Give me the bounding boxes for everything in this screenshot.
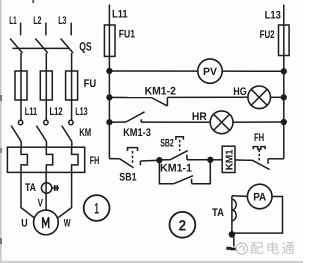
wire TA to PA [232, 195, 248, 198]
fuse FU phase 1 [15, 71, 27, 100]
thermal relay FH element 2 [46, 147, 52, 172]
wire PA loop right [232, 197, 283, 234]
switch QS linkage bar [12, 47, 70, 49]
svg-text:HR: HR [192, 111, 207, 123]
svg-text:FU2: FU2 [260, 29, 275, 41]
svg-text:W: W [64, 217, 71, 229]
svg-text:L12: L12 [50, 106, 63, 118]
lamp HG [248, 86, 271, 109]
motor M1 letter [43, 217, 49, 228]
thermal relay FH element 3 [72, 147, 78, 172]
lamp HR [210, 111, 233, 134]
wire phase W to motor [58, 172, 71, 217]
contact KM1-2 fixed tick [166, 98, 168, 106]
motor M1 circle [34, 210, 59, 235]
contact KM1-1 branch left drop [159, 160, 173, 184]
wire L3 to fuse [71, 53, 73, 71]
ground bar [226, 247, 231, 250]
contactor KM pole 3 blade [62, 126, 72, 142]
wire L1 to fuse [20, 53, 22, 71]
wire right rail top [283, 5, 285, 26]
svg-text:HG: HG [233, 86, 247, 98]
junction node SB2/coil [208, 157, 213, 162]
wire right rail [283, 56, 285, 159]
wire KM2 to FH [46, 142, 48, 147]
svg-text:SB1: SB1 [119, 172, 136, 184]
thermal contact FH blade [253, 160, 270, 169]
svg-text:FU1: FU1 [119, 28, 135, 40]
svg-text:L3: L3 [58, 15, 66, 27]
junction right rail PV [281, 69, 286, 74]
junction node SB1/SB2 [157, 158, 162, 163]
svg-text:配电通: 配电通 [250, 241, 297, 256]
svg-text:TA: TA [25, 182, 36, 194]
svg-text:PV: PV [203, 66, 217, 78]
svg-text:KM1-3: KM1-3 [123, 127, 151, 139]
pushbutton SB2 blade [170, 151, 188, 160]
thermal contact FH release symbol [253, 147, 265, 150]
svg-text:1: 1 [94, 201, 99, 218]
thermal contact FH lead left [245, 159, 253, 161]
junction left rail KM1-3 [107, 120, 112, 125]
contactor KM pole 2 blade [36, 126, 46, 142]
contact KM1-2 lead left [109, 96, 151, 98]
ammeter PA [247, 184, 272, 209]
wire fuse1 to KM [20, 100, 22, 120]
contactor KM pole 1 terminal [18, 120, 22, 124]
pushbutton SB1 lead left [109, 158, 119, 160]
fuse FU phase 3 [66, 71, 78, 100]
pushbutton SB1 actuator [128, 148, 138, 151]
wire L3 stub [70, 23, 72, 36]
voltmeter PV [198, 59, 222, 83]
wire HG to rail [271, 96, 284, 98]
junction right rail HG [281, 95, 286, 100]
svg-text:2: 2 [179, 217, 187, 234]
pushbutton SB1 lead right [140, 159, 159, 162]
wire fuse3 to KM [71, 100, 73, 120]
contact KM1-3 blade [126, 112, 145, 122]
wire KM1-3 to HR [141, 121, 210, 123]
thermal relay FH element 1 [21, 147, 27, 172]
pushbutton SB2 lead right [187, 159, 210, 161]
fuse FU2 [279, 25, 290, 56]
circuit number 2 [170, 212, 196, 238]
junction right rail HR [281, 120, 286, 125]
wire KM3 to FH [71, 142, 73, 147]
svg-text:FU: FU [84, 78, 97, 90]
wire KM1 to FH [20, 142, 22, 147]
watermark logo swirl [236, 243, 247, 254]
thermal contact FH fixed tick [267, 159, 269, 164]
current transformer TA secondary winding [231, 196, 233, 233]
wire L1 stub [20, 23, 22, 36]
svg-text:KM: KM [79, 127, 91, 139]
coil KM1 [222, 146, 235, 172]
contactor KM pole 1 blade [11, 126, 21, 142]
contactor KM pole 3 terminal [69, 120, 73, 124]
svg-text:L11: L11 [25, 106, 37, 118]
circuit number 1 [84, 195, 110, 221]
wire phase V upper [45, 172, 47, 210]
svg-text:QS: QS [79, 40, 92, 54]
wire L2 to fuse [45, 53, 47, 71]
pushbutton SB2 fixed tick [186, 155, 188, 160]
contact KM1-3 fixed tick [140, 119, 142, 122]
junction left rail KM1-2 [107, 95, 112, 100]
svg-text:SB2: SB2 [160, 137, 174, 149]
svg-text:KM1-2: KM1-2 [145, 85, 176, 97]
contact KM1-1 blade [174, 176, 193, 184]
svg-text:L13: L13 [75, 106, 87, 118]
wire HR to rail [233, 121, 284, 123]
switch QS pole 1 blade [10, 39, 23, 54]
switch QS pole 3 blade [61, 39, 74, 54]
svg-text:U: U [21, 217, 27, 229]
contactor KM pole 2 terminal [44, 120, 48, 124]
thermal relay FH box [7, 147, 84, 172]
junction left rail PV [107, 69, 112, 74]
svg-text:KM1: KM1 [225, 149, 236, 170]
wire to coil KM1 [210, 159, 222, 161]
fuse FU1 [104, 25, 115, 56]
contact KM1-2 blade [151, 98, 167, 106]
junction TA ground node [229, 232, 234, 237]
wire fuse2 to KM [45, 100, 47, 120]
wire phase U to motor [21, 172, 34, 217]
switch QS pole 2 blade [35, 39, 48, 54]
svg-text:PA: PA [253, 192, 266, 204]
wire coil to FH contact [235, 159, 245, 161]
svg-text:V: V [38, 197, 44, 209]
current transformer TA polarity marks [52, 187, 59, 189]
contact KM1-3 lead left [109, 121, 126, 123]
svg-text:L13: L13 [265, 9, 281, 21]
svg-text:L11: L11 [112, 9, 128, 21]
contact KM1-1 fixed tick [191, 179, 193, 184]
wire KM1-2 to HG [167, 96, 248, 98]
wire L2 stub [45, 23, 47, 36]
svg-text:FH: FH [90, 155, 100, 167]
pushbutton SB2 actuator [176, 137, 184, 140]
svg-text:L2: L2 [33, 15, 41, 27]
contact KM1-1 branch right [192, 160, 211, 184]
wire PV row right [222, 70, 284, 72]
current transformer TA primary circle [41, 183, 51, 193]
thermal contact FH lead right [268, 158, 284, 160]
pushbutton SB1 blade [119, 159, 133, 168]
svg-text:TA: TA [212, 207, 224, 219]
svg-text:KM1-1: KM1-1 [160, 162, 192, 174]
svg-text:FH: FH [254, 132, 264, 144]
pushbutton SB2 lead left [159, 159, 170, 161]
svg-text:L1: L1 [9, 15, 16, 27]
wire left rail [108, 56, 110, 158]
wire PV row left [109, 70, 197, 72]
pushbutton SB1 fixed tick [139, 161, 141, 165]
ground lead [233, 237, 235, 247]
wire left rail top [108, 5, 110, 26]
fuse FU phase 2 [40, 71, 52, 100]
